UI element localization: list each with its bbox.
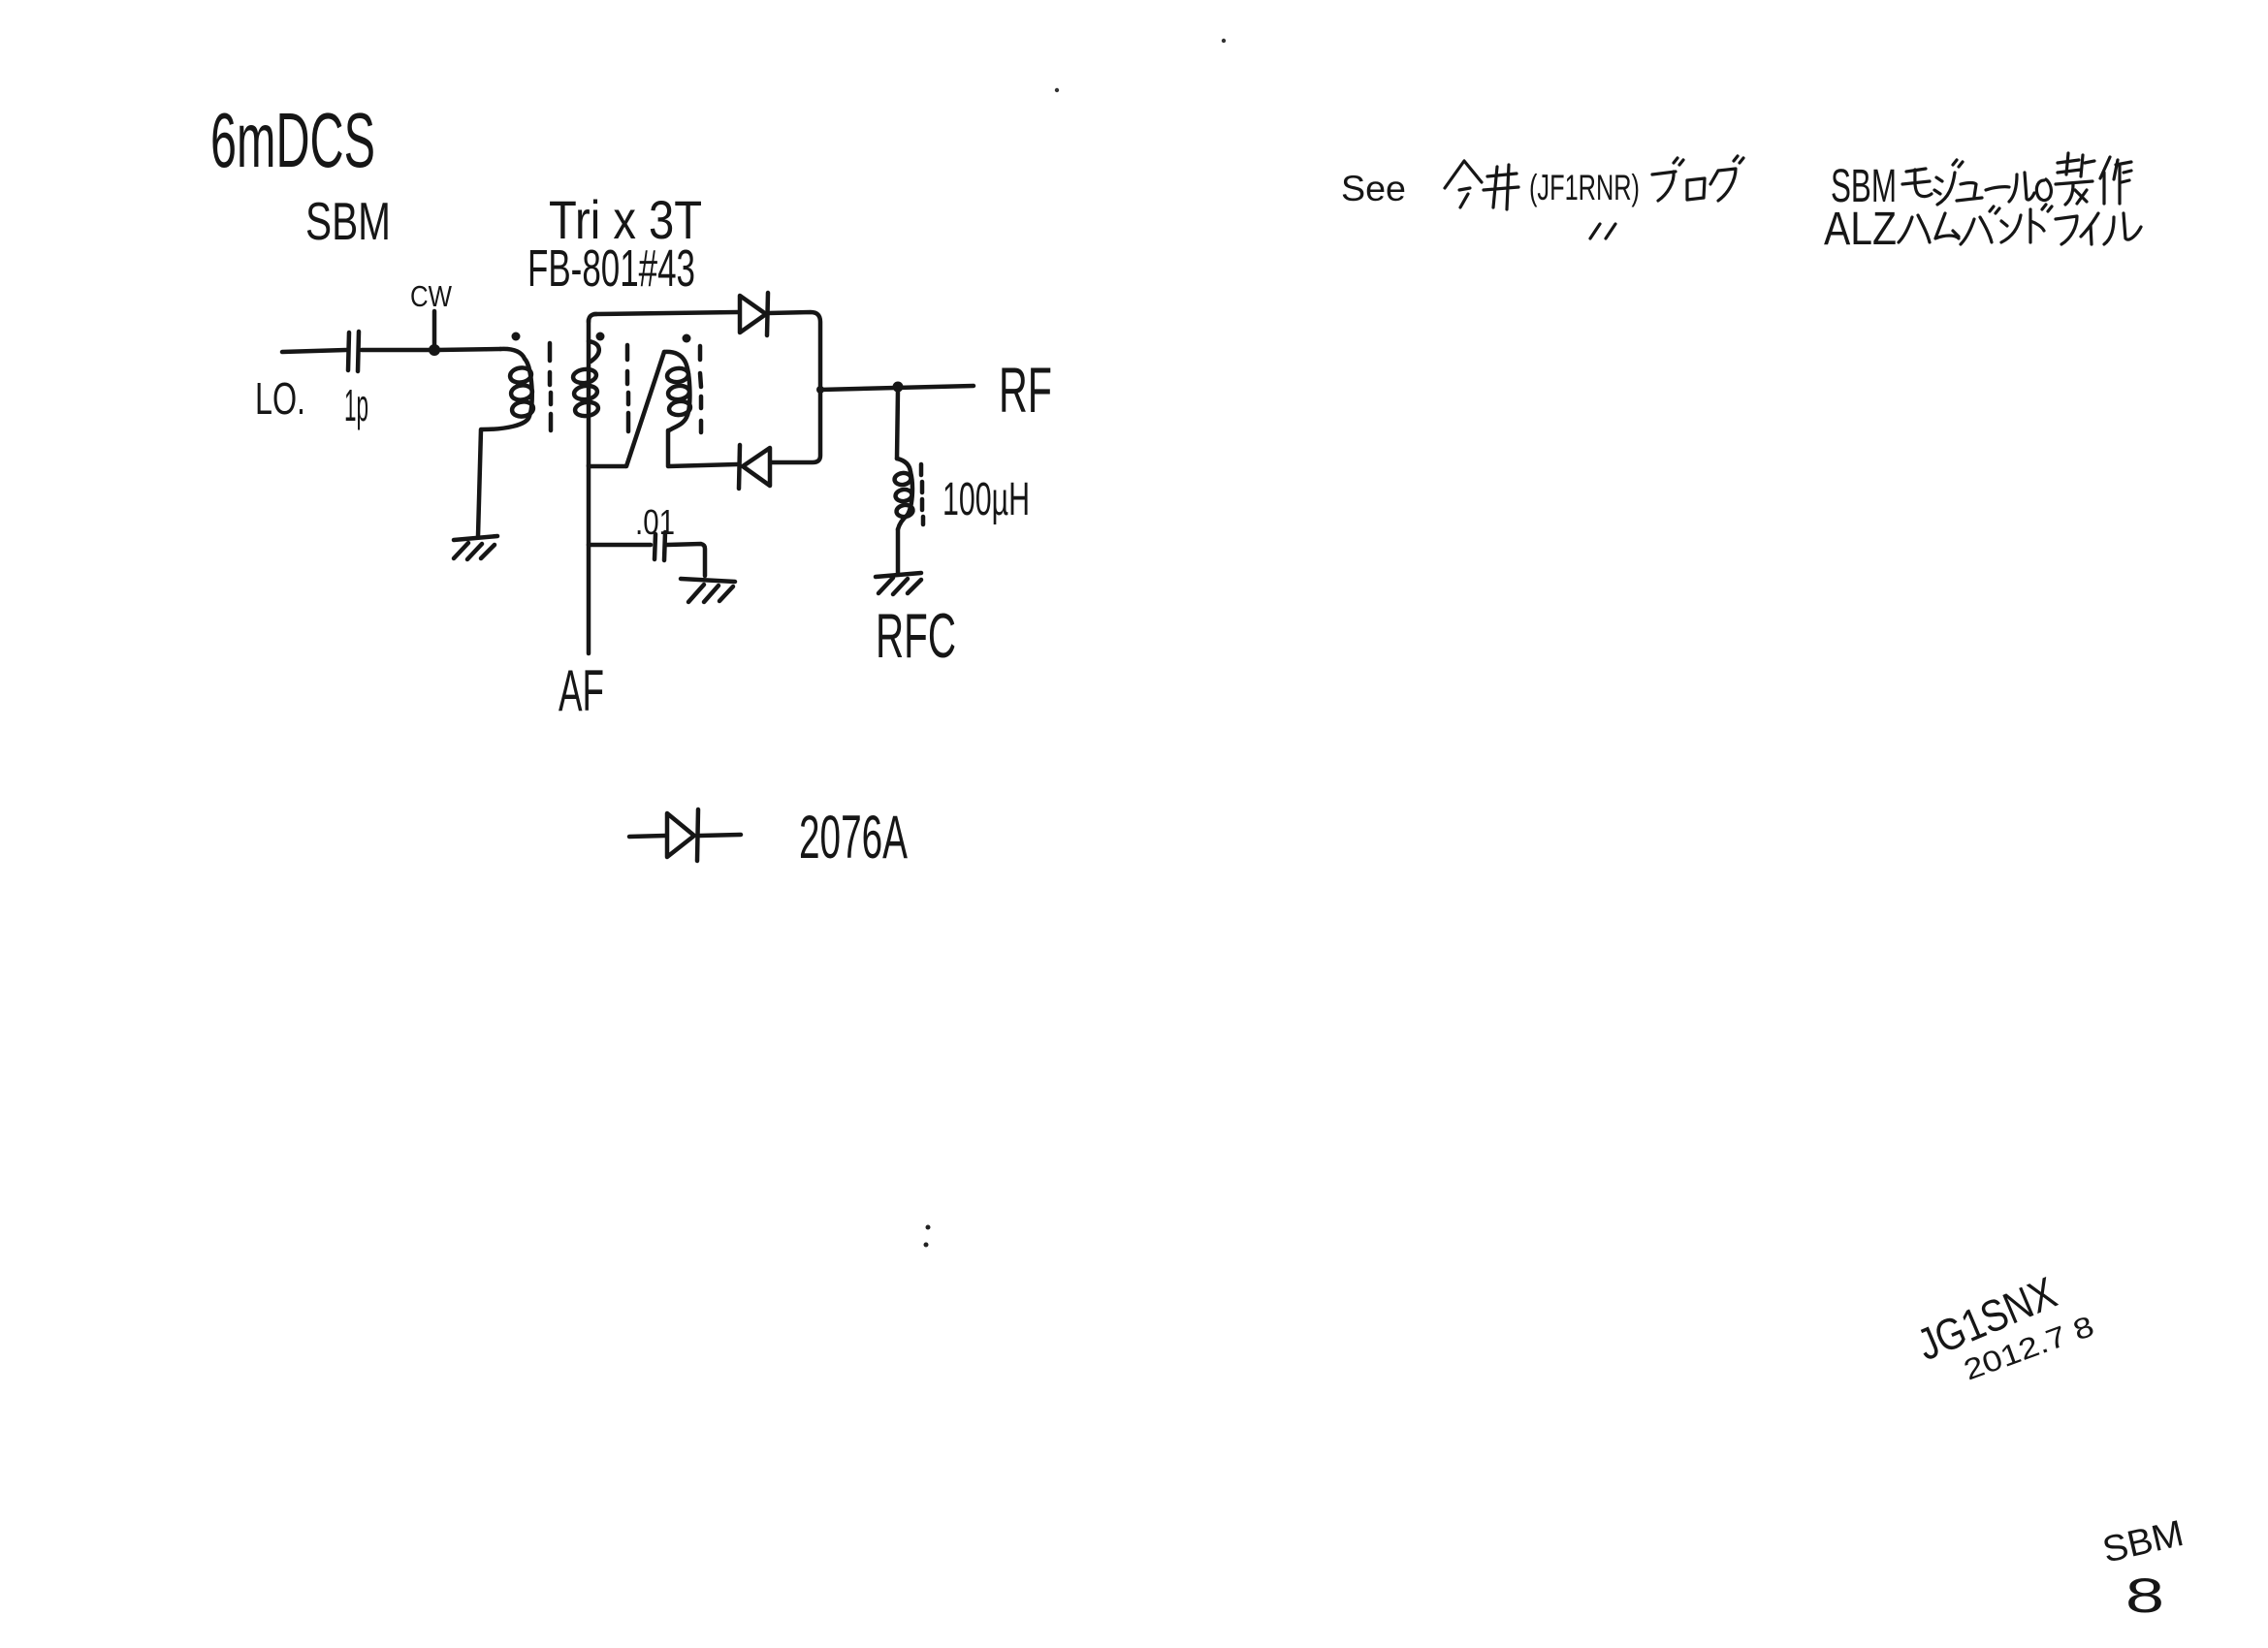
svg-text:100µH: 100µH [942, 474, 1030, 525]
transformer T2 winding A (left) [589, 314, 596, 322]
wire C1 to CW node [362, 348, 432, 353]
svg-text:6mDCS: 6mDCS [210, 97, 375, 183]
svg-text:RFC: RFC [876, 600, 956, 671]
node CW junction [429, 344, 440, 356]
svg-text:1p: 1p [344, 380, 368, 430]
wire T1 bottom to ground [478, 429, 481, 536]
wire node to T1 [436, 349, 500, 350]
transformer T2 winding B (right) [664, 352, 685, 361]
node RFC tap [893, 382, 904, 393]
svg-text:SBM: SBM [2099, 1513, 2188, 1571]
RFC core dashes [921, 464, 923, 524]
ground G2 [681, 579, 735, 582]
svg-text:FB-801#43: FB-801#43 [527, 239, 695, 298]
wire RF output [820, 386, 974, 390]
svg-text:RF: RF [999, 354, 1052, 426]
wire AF stem [587, 465, 591, 653]
wire D1 to right corner [768, 312, 820, 388]
annotation katakana blog [1652, 172, 1676, 201]
svg-text:(JF1RNR): (JF1RNR) [1529, 168, 1640, 207]
annotation kanji Imai [1445, 161, 1482, 207]
T2 winding A phase dot [596, 333, 605, 341]
wire C2 to ground [667, 544, 705, 576]
svg-text:SBM: SBM [305, 191, 391, 251]
svg-text:LO.: LO. [255, 373, 305, 424]
wire right vertical lower + corner to D2 [772, 392, 820, 462]
T2 core dashes column 1 [627, 345, 628, 431]
wire to C2 [589, 543, 651, 548]
annotation ditto mark [1590, 224, 1615, 238]
ground G1 [454, 536, 497, 540]
legend diode 2076A [629, 836, 665, 837]
wire T2 bottom segments [589, 464, 737, 466]
wire LO input lead [282, 350, 346, 352]
svg-text:ALZ: ALZ [1824, 204, 1897, 255]
svg-text:2076A: 2076A [799, 804, 908, 872]
wire T2 top to D1 [594, 312, 738, 314]
T2 core dashes column 2 [700, 346, 701, 432]
wire RFC to ground [896, 529, 901, 573]
T2 winding B phase dot [683, 334, 691, 343]
annotation kanji seisaku [2058, 153, 2094, 176]
T1 core (dashed) [550, 343, 551, 430]
svg-text:.01: .01 [635, 502, 675, 542]
transformer T1 primary winding [500, 349, 525, 359]
diode D2 [743, 448, 770, 486]
diode D1 [740, 296, 766, 333]
dust specks [1222, 39, 1226, 43]
ground G3 [876, 573, 921, 577]
annotation katakana module-no [1902, 169, 1932, 197]
capacitor C2 (.01) [655, 532, 665, 560]
svg-text:CW: CW [410, 279, 453, 313]
T2 crossing wire diagonal [626, 352, 664, 466]
capacitor C1 (1p) [348, 332, 359, 371]
svg-text:See: See [1341, 169, 1406, 208]
svg-text:8: 8 [2125, 1569, 2164, 1623]
annotation katakana ham band fil [1899, 215, 1930, 242]
svg-text:AF: AF [559, 658, 604, 723]
T1 phase dot [512, 333, 521, 341]
inductor RFC 100uH [897, 390, 898, 459]
